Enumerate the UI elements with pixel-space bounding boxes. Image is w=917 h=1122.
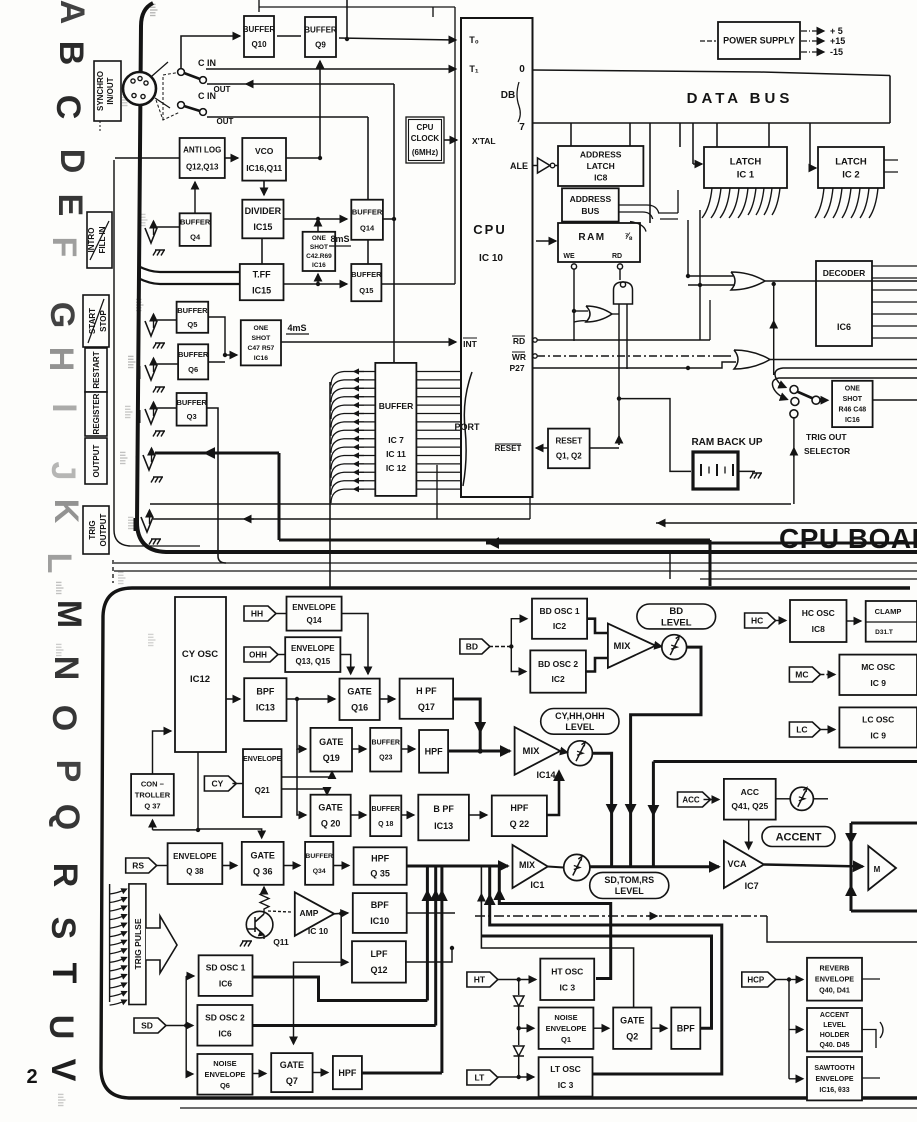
svg-text:TRIG PULSE: TRIG PULSE bbox=[133, 918, 143, 969]
svg-text:BUFFER: BUFFER bbox=[352, 207, 383, 216]
svg-text:GATE: GATE bbox=[251, 851, 275, 861]
svg-text:Q12,Q13: Q12,Q13 bbox=[186, 162, 219, 171]
svg-text:SHOT: SHOT bbox=[843, 396, 863, 403]
svg-text:ıılıı: ıılıı bbox=[117, 451, 128, 465]
svg-text:GATE: GATE bbox=[347, 686, 371, 696]
svg-text:SD OSC 2: SD OSC 2 bbox=[205, 1012, 245, 1022]
svg-text:CY,HH,OHH: CY,HH,OHH bbox=[555, 711, 605, 721]
svg-text:Q 38: Q 38 bbox=[186, 867, 204, 876]
svg-text:HPF: HPF bbox=[371, 854, 390, 864]
svg-text:ACCENT: ACCENT bbox=[776, 831, 822, 843]
svg-text:BUFFER: BUFFER bbox=[177, 306, 208, 315]
svg-text:Q40. D45: Q40. D45 bbox=[820, 1042, 850, 1049]
svg-text:IC10: IC10 bbox=[370, 916, 389, 926]
svg-text:BD: BD bbox=[466, 641, 478, 651]
svg-text:ACC: ACC bbox=[682, 795, 700, 804]
svg-text:G: G bbox=[43, 302, 81, 328]
svg-text:LATCH: LATCH bbox=[835, 156, 867, 167]
svg-text:RAM BACK UP: RAM BACK UP bbox=[691, 437, 762, 448]
svg-text:I: I bbox=[45, 403, 83, 412]
svg-text:C IN: C IN bbox=[198, 58, 216, 68]
svg-text:-15: -15 bbox=[830, 47, 843, 57]
svg-text:BUFFER: BUFFER bbox=[176, 398, 207, 407]
svg-text:4mS: 4mS bbox=[287, 323, 306, 333]
svg-text:T: T bbox=[45, 963, 83, 984]
svg-text:DIVIDER: DIVIDER bbox=[245, 206, 282, 216]
svg-text:ıılıı: ıılıı bbox=[122, 405, 133, 419]
svg-text:R46 C48: R46 C48 bbox=[839, 407, 867, 414]
svg-text:BPF: BPF bbox=[371, 900, 390, 910]
svg-text:IC 7: IC 7 bbox=[388, 435, 404, 445]
svg-text:+ 5: + 5 bbox=[830, 26, 843, 36]
svg-text:IC8: IC8 bbox=[594, 172, 608, 182]
svg-text:N: N bbox=[47, 656, 85, 681]
svg-text:WR: WR bbox=[512, 352, 526, 362]
svg-text:DATA BUS: DATA BUS bbox=[687, 90, 794, 107]
svg-text:LT OSC: LT OSC bbox=[550, 1064, 581, 1074]
svg-text:Q9: Q9 bbox=[315, 40, 326, 49]
svg-text:GATE: GATE bbox=[319, 737, 343, 747]
svg-text:HPF: HPF bbox=[510, 803, 529, 813]
svg-text:Q 22: Q 22 bbox=[510, 819, 530, 829]
svg-text:U: U bbox=[42, 1015, 80, 1040]
svg-text:BUFFER: BUFFER bbox=[351, 270, 382, 279]
svg-text:Q 35: Q 35 bbox=[370, 869, 390, 879]
svg-text:Q6: Q6 bbox=[220, 1081, 230, 1090]
svg-text:ENVELOPE: ENVELOPE bbox=[292, 603, 336, 612]
svg-text:Q1, Q2: Q1, Q2 bbox=[556, 452, 582, 461]
svg-text:Q23: Q23 bbox=[379, 755, 392, 762]
svg-text:BUFFER: BUFFER bbox=[304, 25, 337, 34]
svg-text:C IN: C IN bbox=[198, 91, 216, 101]
svg-text:D31.T: D31.T bbox=[875, 629, 893, 636]
svg-text:IC2: IC2 bbox=[553, 621, 567, 631]
svg-text:SHOT: SHOT bbox=[251, 335, 271, 342]
svg-text:HPF: HPF bbox=[338, 1068, 357, 1078]
svg-text:Q 37: Q 37 bbox=[144, 801, 160, 810]
svg-text:DB: DB bbox=[501, 90, 515, 101]
svg-text:(6MHz): (6MHz) bbox=[412, 148, 439, 157]
svg-text:ACCENT: ACCENT bbox=[820, 1012, 850, 1019]
svg-text:ADDRESS: ADDRESS bbox=[570, 194, 612, 204]
svg-text:8mS: 8mS bbox=[330, 234, 349, 244]
svg-text:IC12: IC12 bbox=[190, 674, 210, 685]
svg-text:Q4: Q4 bbox=[190, 233, 201, 242]
svg-text:IC15: IC15 bbox=[252, 285, 271, 295]
svg-text:POWER SUPPLY: POWER SUPPLY bbox=[723, 36, 795, 46]
svg-text:BPF: BPF bbox=[256, 687, 275, 697]
svg-text:CPU: CPU bbox=[417, 123, 434, 132]
svg-text:Q2: Q2 bbox=[626, 1031, 638, 1041]
svg-text:SD OSC 1: SD OSC 1 bbox=[206, 963, 246, 973]
svg-text:BD OSC 1: BD OSC 1 bbox=[539, 606, 579, 616]
svg-text:CY: CY bbox=[211, 778, 223, 788]
svg-text:BPF: BPF bbox=[677, 1023, 696, 1033]
svg-text:IC15: IC15 bbox=[253, 222, 272, 232]
svg-text:IC 1: IC 1 bbox=[737, 169, 755, 180]
svg-text:K: K bbox=[47, 499, 85, 524]
svg-text:INT: INT bbox=[463, 339, 478, 349]
svg-text:IC16: IC16 bbox=[254, 355, 269, 362]
svg-text:Q11: Q11 bbox=[273, 937, 289, 947]
svg-text:Q41, Q25: Q41, Q25 bbox=[731, 801, 768, 811]
svg-text:Q40, D41: Q40, D41 bbox=[819, 986, 850, 995]
svg-text:REVERB: REVERB bbox=[820, 964, 850, 973]
svg-text:GATE: GATE bbox=[620, 1015, 644, 1025]
svg-text:IC 12: IC 12 bbox=[386, 463, 407, 473]
svg-text:DECODER: DECODER bbox=[823, 268, 866, 278]
svg-text:ıılıı: ıılıı bbox=[115, 571, 126, 585]
svg-text:REGISTER: REGISTER bbox=[92, 393, 101, 434]
svg-text:T.FF: T.FF bbox=[253, 269, 271, 279]
svg-text:IC6: IC6 bbox=[218, 1028, 232, 1038]
svg-text:ACC: ACC bbox=[741, 787, 759, 797]
svg-text:V: V bbox=[44, 1059, 82, 1082]
svg-text:H: H bbox=[42, 347, 80, 372]
svg-text:MIX: MIX bbox=[614, 641, 632, 652]
svg-text:IC16: IC16 bbox=[312, 262, 326, 269]
svg-text:NOISE: NOISE bbox=[213, 1059, 236, 1068]
svg-text:VCO: VCO bbox=[255, 146, 274, 156]
svg-text:Q13, Q15: Q13, Q15 bbox=[295, 657, 330, 666]
svg-text:ıılıı: ıılıı bbox=[55, 1093, 66, 1107]
svg-text:ıılıı: ıılıı bbox=[53, 581, 64, 595]
svg-text:VCA: VCA bbox=[727, 859, 747, 869]
svg-text:P: P bbox=[49, 760, 87, 783]
svg-text:X'TAL: X'TAL bbox=[472, 136, 496, 146]
svg-text:OUTPUT: OUTPUT bbox=[92, 444, 101, 477]
svg-text:BUFFER: BUFFER bbox=[180, 218, 211, 227]
svg-text:HPF: HPF bbox=[425, 747, 444, 757]
svg-text:Q: Q bbox=[48, 804, 86, 830]
svg-text:NOISE: NOISE bbox=[554, 1013, 577, 1022]
svg-text:RESET: RESET bbox=[555, 437, 582, 446]
svg-text:ADDRESS: ADDRESS bbox=[580, 149, 622, 159]
svg-text:SAWTOOTH: SAWTOOTH bbox=[814, 1065, 854, 1072]
svg-text:ENVELOPE: ENVELOPE bbox=[546, 1024, 587, 1033]
svg-text:IC13: IC13 bbox=[256, 703, 275, 713]
svg-text:B: B bbox=[52, 41, 90, 66]
svg-text:Q16: Q16 bbox=[351, 702, 368, 712]
svg-text:OHH: OHH bbox=[249, 650, 267, 659]
svg-text:ONE: ONE bbox=[254, 325, 269, 332]
svg-text:LATCH: LATCH bbox=[730, 156, 762, 167]
svg-text:Q6: Q6 bbox=[188, 365, 198, 374]
svg-text:ANTI LOG: ANTI LOG bbox=[183, 145, 221, 154]
svg-text:CON −: CON − bbox=[141, 779, 165, 788]
svg-text:HH: HH bbox=[251, 608, 263, 618]
svg-text:MC OSC: MC OSC bbox=[861, 662, 895, 672]
svg-text:ENVELOPE: ENVELOPE bbox=[173, 852, 217, 861]
svg-text:LATCH: LATCH bbox=[587, 161, 615, 171]
svg-text:TROLLER: TROLLER bbox=[135, 790, 171, 799]
svg-text:IC16: IC16 bbox=[845, 417, 860, 424]
svg-text:Q34: Q34 bbox=[313, 868, 326, 875]
svg-text:MIX: MIX bbox=[523, 746, 541, 757]
svg-text:LT: LT bbox=[475, 1072, 486, 1082]
svg-text:BUFFER: BUFFER bbox=[305, 853, 333, 860]
svg-text:TRIG OUT: TRIG OUT bbox=[806, 432, 847, 442]
svg-text:IC8: IC8 bbox=[812, 624, 826, 634]
svg-text:OUT: OUT bbox=[214, 85, 231, 94]
svg-text:MIX: MIX bbox=[519, 860, 535, 870]
svg-text:C: C bbox=[49, 95, 87, 120]
svg-text:OUTPUT: OUTPUT bbox=[99, 513, 108, 546]
svg-text:IC 9: IC 9 bbox=[870, 678, 886, 688]
svg-text:IC 10: IC 10 bbox=[308, 926, 329, 936]
svg-text:HC OSC: HC OSC bbox=[802, 608, 835, 618]
svg-text:BUFFER: BUFFER bbox=[243, 25, 276, 34]
svg-text:SHOT: SHOT bbox=[310, 244, 328, 251]
svg-text:Q12: Q12 bbox=[370, 965, 387, 975]
svg-text:T₁: T₁ bbox=[469, 64, 478, 74]
svg-text:ıılıı: ıılıı bbox=[125, 355, 136, 369]
svg-text:IC 11: IC 11 bbox=[386, 449, 406, 459]
svg-text:D: D bbox=[53, 149, 91, 174]
svg-text:BD: BD bbox=[669, 606, 683, 617]
svg-text:ALE: ALE bbox=[510, 161, 528, 171]
svg-text:L: L bbox=[40, 553, 78, 574]
svg-text:Q1: Q1 bbox=[561, 1035, 571, 1044]
svg-text:IC 2: IC 2 bbox=[842, 169, 859, 180]
svg-text:ONE: ONE bbox=[312, 235, 327, 242]
svg-text:CPU: CPU bbox=[473, 222, 506, 237]
svg-text:P27: P27 bbox=[509, 363, 524, 373]
svg-text:BUFFER: BUFFER bbox=[379, 401, 413, 411]
svg-text:A: A bbox=[53, 0, 91, 24]
svg-text:ENVELOPE: ENVELOPE bbox=[243, 756, 281, 763]
svg-text:T₀: T₀ bbox=[469, 35, 479, 45]
svg-text:RD: RD bbox=[612, 253, 622, 260]
svg-text:Q21: Q21 bbox=[255, 786, 271, 795]
svg-text:IC6: IC6 bbox=[837, 322, 851, 332]
svg-text:IC 10: IC 10 bbox=[479, 253, 503, 264]
svg-text:ONE: ONE bbox=[845, 386, 861, 393]
svg-text:LC: LC bbox=[796, 724, 807, 734]
svg-text:Q17: Q17 bbox=[418, 702, 435, 712]
svg-text:+15: +15 bbox=[830, 36, 845, 46]
svg-text:Q 20: Q 20 bbox=[321, 819, 341, 829]
svg-text:B PF: B PF bbox=[433, 804, 454, 814]
svg-text:IC16,Q11: IC16,Q11 bbox=[246, 163, 282, 173]
svg-text:H PF: H PF bbox=[416, 686, 437, 696]
svg-text:RESTART: RESTART bbox=[92, 351, 101, 388]
svg-text:HT OSC: HT OSC bbox=[551, 966, 583, 976]
svg-text:Q19: Q19 bbox=[323, 753, 340, 763]
svg-text:IC7: IC7 bbox=[745, 881, 759, 891]
svg-text:E: E bbox=[51, 194, 89, 217]
svg-text:SD,TOM,RS: SD,TOM,RS bbox=[604, 875, 654, 885]
svg-text:CY OSC: CY OSC bbox=[182, 649, 218, 660]
svg-text:RD: RD bbox=[513, 336, 525, 346]
svg-text:C42.R69: C42.R69 bbox=[306, 253, 332, 260]
svg-text:IC1: IC1 bbox=[530, 880, 544, 890]
svg-text:IC 3: IC 3 bbox=[558, 1080, 574, 1090]
svg-text:HT: HT bbox=[474, 974, 486, 984]
svg-text:SELECTOR: SELECTOR bbox=[804, 446, 850, 456]
svg-text:IC 9: IC 9 bbox=[870, 730, 886, 740]
svg-text:M: M bbox=[50, 600, 88, 628]
svg-text:0: 0 bbox=[519, 64, 525, 75]
svg-text:Q10: Q10 bbox=[251, 40, 267, 49]
svg-text:Q 36: Q 36 bbox=[253, 867, 273, 877]
svg-text:IC2: IC2 bbox=[551, 674, 565, 684]
svg-text:HC: HC bbox=[751, 615, 763, 625]
svg-text:STOP: STOP bbox=[99, 310, 108, 332]
svg-text:F: F bbox=[45, 237, 83, 258]
svg-text:BUFFER: BUFFER bbox=[178, 350, 209, 359]
svg-text:Q7: Q7 bbox=[286, 1076, 298, 1086]
svg-text:RESET: RESET bbox=[495, 444, 522, 453]
svg-text:RAM: RAM bbox=[578, 232, 605, 243]
svg-text:ıılıı: ıılıı bbox=[53, 643, 64, 657]
svg-text:LEVEL: LEVEL bbox=[661, 618, 692, 629]
svg-text:IC 3: IC 3 bbox=[559, 982, 575, 992]
svg-text:HOLDER: HOLDER bbox=[820, 1032, 850, 1039]
svg-text:M: M bbox=[874, 865, 881, 874]
svg-text:Q14: Q14 bbox=[360, 223, 375, 232]
svg-text:OUT: OUT bbox=[217, 117, 234, 126]
svg-text:LEVEL: LEVEL bbox=[823, 1022, 846, 1029]
svg-text:HCP: HCP bbox=[747, 975, 765, 984]
svg-text:BUS: BUS bbox=[581, 206, 599, 216]
svg-text:IC14: IC14 bbox=[536, 770, 555, 780]
svg-text:IC16, θ33: IC16, θ33 bbox=[819, 1087, 849, 1094]
svg-text:IN/OUT: IN/OUT bbox=[106, 77, 115, 104]
svg-text:ıılıı: ıılıı bbox=[145, 633, 156, 647]
svg-text:LEVEL: LEVEL bbox=[615, 886, 645, 896]
svg-text:SD: SD bbox=[141, 1020, 153, 1030]
svg-text:BUFFER: BUFFER bbox=[372, 740, 400, 747]
svg-text:ENVELOPE: ENVELOPE bbox=[291, 644, 335, 653]
svg-text:CLAMP: CLAMP bbox=[875, 607, 902, 616]
svg-text:INTRO: INTRO bbox=[87, 228, 96, 253]
svg-text:IC13: IC13 bbox=[434, 821, 453, 831]
svg-text:Q 18: Q 18 bbox=[378, 821, 393, 828]
svg-text:AMP: AMP bbox=[300, 908, 319, 918]
svg-text:TRIG: TRIG bbox=[88, 520, 97, 539]
svg-text:ENVELOPE: ENVELOPE bbox=[815, 1076, 853, 1083]
svg-text:GATE: GATE bbox=[280, 1060, 304, 1070]
svg-text:CPU BOARD: CPU BOARD bbox=[779, 523, 917, 554]
svg-text:R: R bbox=[46, 863, 84, 888]
svg-text:S: S bbox=[44, 917, 82, 940]
svg-text:Q14: Q14 bbox=[306, 616, 322, 625]
svg-text:ENVELOPE: ENVELOPE bbox=[205, 1070, 246, 1079]
svg-text:O: O bbox=[45, 705, 83, 731]
svg-text:LC OSC: LC OSC bbox=[862, 714, 894, 724]
svg-text:RS: RS bbox=[132, 860, 144, 870]
svg-text:C47 R57: C47 R57 bbox=[247, 345, 274, 352]
svg-text:BUFFER: BUFFER bbox=[372, 806, 400, 813]
svg-text:⅞: ⅞ bbox=[624, 231, 632, 241]
svg-text:IC6: IC6 bbox=[219, 979, 233, 989]
svg-text:J: J bbox=[44, 462, 82, 481]
svg-text:CLOCK: CLOCK bbox=[411, 134, 440, 143]
svg-text:GATE: GATE bbox=[318, 803, 342, 813]
svg-text:Q15: Q15 bbox=[359, 286, 373, 295]
svg-text:ENVELOPE: ENVELOPE bbox=[815, 975, 854, 984]
svg-text:SYNCHRO: SYNCHRO bbox=[96, 71, 105, 111]
svg-text:2: 2 bbox=[26, 1066, 37, 1088]
svg-text:BD OSC 2: BD OSC 2 bbox=[538, 659, 578, 669]
svg-text:Q3: Q3 bbox=[187, 412, 197, 421]
svg-text:LPF: LPF bbox=[370, 949, 388, 959]
svg-text:LEVEL: LEVEL bbox=[565, 722, 595, 732]
svg-text:7: 7 bbox=[519, 122, 525, 133]
svg-text:Q5: Q5 bbox=[187, 320, 197, 329]
svg-text:WE: WE bbox=[563, 253, 575, 260]
svg-text:MC: MC bbox=[795, 669, 808, 679]
